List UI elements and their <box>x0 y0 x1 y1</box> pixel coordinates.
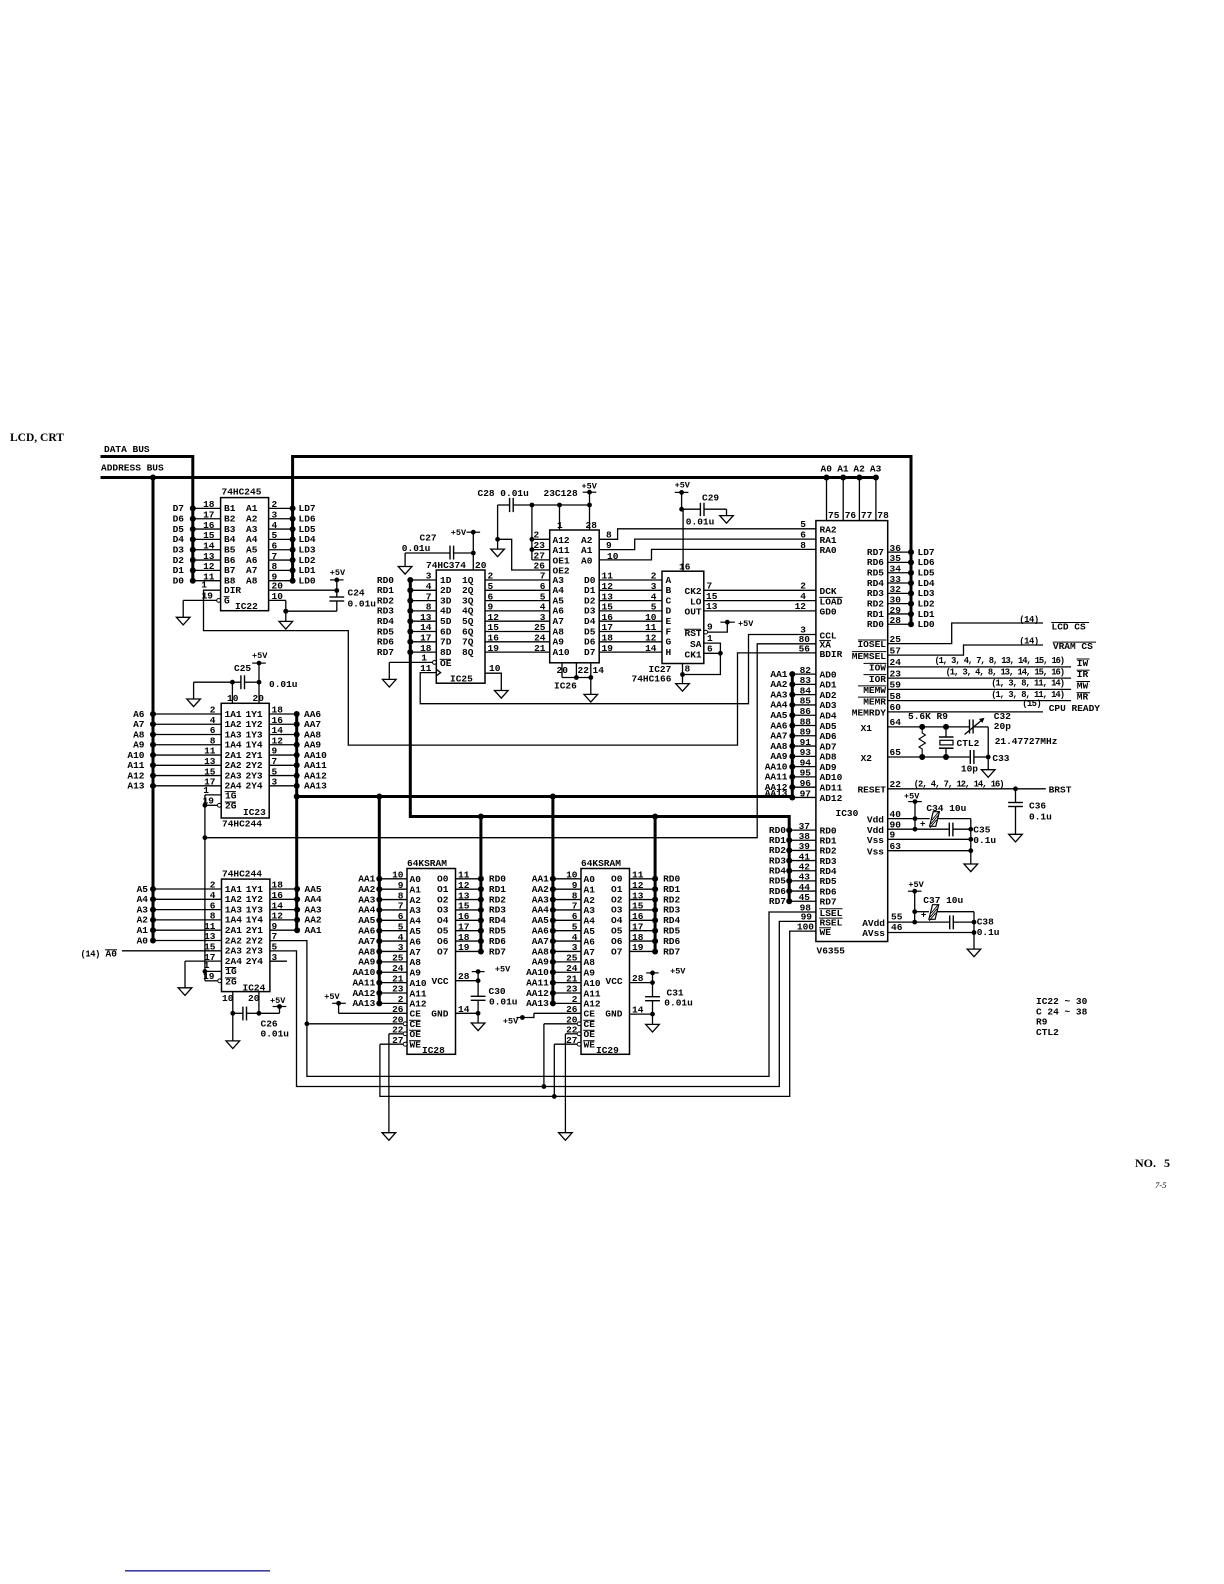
ground IC22 pin10 / C24 <box>279 621 293 629</box>
wire IC28 VCC pin28 <box>456 971 481 983</box>
svg-text:74HC166: 74HC166 <box>632 674 672 685</box>
svg-text:20: 20 <box>475 560 487 571</box>
svg-text:6: 6 <box>398 911 404 922</box>
svg-text:0.01u: 0.01u <box>686 517 715 528</box>
wire IC30 pin 32 RD3 to LD3 <box>867 584 935 599</box>
svg-text:14: 14 <box>593 665 605 676</box>
wire RD4 to IC25 pin 13 <box>377 612 436 627</box>
svg-text:CPU READY: CPU READY <box>1049 703 1101 714</box>
wire IC28 pin 17 O5 to RD5 <box>456 921 507 936</box>
svg-text:RD0: RD0 <box>663 874 680 885</box>
svg-text:+5V: +5V <box>503 1017 519 1027</box>
wire IC30 pin 34 RD5 to LD5 <box>867 564 935 579</box>
svg-text:MEMSEL: MEMSEL <box>852 651 887 662</box>
svg-text:74HC244: 74HC244 <box>222 868 262 879</box>
wire IC23 pin 12 to AA9 <box>269 735 321 750</box>
wire AA2 to IC28 pin 9 <box>358 880 407 895</box>
svg-text:3: 3 <box>272 777 278 788</box>
svg-text:19: 19 <box>488 643 500 654</box>
wire IC29 pin 15 O3 to RD3 <box>630 901 681 916</box>
svg-text:A0: A0 <box>821 464 833 475</box>
IC IC29 64KSRAM <box>581 858 630 1056</box>
wire IC27 OUT pin13 to IC30 GD0 <box>704 601 837 618</box>
svg-text:A0: A0 <box>137 935 149 946</box>
wire IC25 pin 2 to IC26 <box>485 571 550 582</box>
svg-text:11: 11 <box>632 870 644 881</box>
svg-text:AD12: AD12 <box>820 793 843 804</box>
svg-text:BDIR: BDIR <box>820 649 843 660</box>
wire IC29 pin 12 O1 to RD1 <box>630 880 681 895</box>
wire A11 to IC23 pin 13 <box>127 756 221 771</box>
wire RD data bus (thick) <box>410 580 789 952</box>
svg-text:IC25: IC25 <box>450 673 473 684</box>
svg-text:IC30: IC30 <box>836 808 859 819</box>
wire AA5 to IC29 pin 6 <box>532 911 581 926</box>
wire data bus right segment (LD bus) <box>293 457 911 625</box>
svg-text:CTL2: CTL2 <box>957 738 980 749</box>
wire G-enable vertical IC23 to IC24 <box>203 795 208 981</box>
wire A10 to IC23 pin 11 <box>127 746 221 761</box>
svg-text:RD6: RD6 <box>489 936 506 947</box>
wire AA address bus (thick) <box>294 674 793 1003</box>
wire crystal to ground <box>986 727 991 770</box>
ground IC27 pin8 <box>676 684 690 692</box>
wire IC28 pin 12 O1 to RD1 <box>456 880 507 895</box>
svg-text:R9: R9 <box>1036 1017 1048 1028</box>
svg-text:4: 4 <box>398 932 404 943</box>
wire AA9 to IC28 pin 25 <box>358 953 407 968</box>
svg-text:55: 55 <box>891 912 903 923</box>
wire IC29 pin 17 O5 to RD5 <box>630 921 681 936</box>
wire D6 to IC22 pin 17 <box>173 509 221 524</box>
wire IC22 pin 20 VCC <box>269 581 337 592</box>
wire IC24 1G/2G enable <box>203 960 221 982</box>
svg-text:21.47727MHz: 21.47727MHz <box>995 736 1058 747</box>
svg-text:28: 28 <box>458 971 470 982</box>
svg-text:Vdd: Vdd <box>867 814 884 825</box>
svg-text:AA3: AA3 <box>532 894 549 905</box>
wire IC27 CK2 pin7 to IC30 DCK <box>704 581 837 598</box>
svg-text:19: 19 <box>632 942 644 953</box>
svg-text:LCD, CRT: LCD, CRT <box>10 432 64 444</box>
wire IC28 pin 13 O2 to RD2 <box>456 890 507 905</box>
svg-text:1: 1 <box>707 633 713 644</box>
svg-text:18: 18 <box>632 932 644 943</box>
svg-text:AA1: AA1 <box>305 925 322 936</box>
svg-text:AA9: AA9 <box>532 957 549 968</box>
svg-text:6: 6 <box>572 911 578 922</box>
svg-text:RD3: RD3 <box>663 905 680 916</box>
wire AA7 to IC28 pin 4 <box>358 932 407 947</box>
ground crystal <box>981 770 995 778</box>
svg-text:RA0: RA0 <box>820 545 837 556</box>
svg-text:21: 21 <box>392 973 404 984</box>
svg-text:IC22 ~ 30: IC22 ~ 30 <box>1036 996 1088 1007</box>
svg-text:CE: CE <box>410 1009 422 1020</box>
svg-text:15: 15 <box>458 901 470 912</box>
svg-text:A2: A2 <box>410 895 422 906</box>
wire IC29 pin 18 O6 to RD6 <box>630 932 681 947</box>
svg-text:O0: O0 <box>437 874 449 885</box>
svg-text:AA2: AA2 <box>532 884 549 895</box>
svg-text:X1: X1 <box>861 723 873 734</box>
svg-text:AA11: AA11 <box>526 977 549 988</box>
svg-text:8Q: 8Q <box>462 647 474 658</box>
svg-text:28: 28 <box>586 520 598 531</box>
svg-text:DIR: DIR <box>224 585 241 596</box>
svg-text:C24: C24 <box>348 588 365 599</box>
svg-text:23: 23 <box>392 984 404 995</box>
wire address bus <box>101 463 877 481</box>
footer underline <box>125 1570 270 1572</box>
svg-text:74HC245: 74HC245 <box>222 487 262 498</box>
wire DATA BUS label <box>104 444 150 455</box>
wire AVdd row / C38 <box>888 915 977 929</box>
svg-text:RD1: RD1 <box>663 884 680 895</box>
wire IC23 pin 5 to AA12 <box>269 766 327 781</box>
svg-text:Vss: Vss <box>867 835 884 846</box>
wire IC22 pin 6 to LD3 <box>269 540 316 555</box>
svg-text:8D: 8D <box>440 647 452 658</box>
svg-text:+5V: +5V <box>675 480 691 490</box>
wire IC25 pin 16 to IC26 <box>485 633 550 644</box>
svg-text:21: 21 <box>534 643 546 654</box>
svg-text:25: 25 <box>392 953 404 964</box>
wire MEMRDY to CPU READY <box>852 699 1101 718</box>
wire AA12 to IC29 pin 23 <box>526 984 581 999</box>
wire IC22 pin 1 DIR / pin 19 G <box>183 579 220 617</box>
wire A4 to IC24 pin 4 <box>137 890 222 905</box>
wire Vss to ground <box>888 819 973 864</box>
wire RD3 to IC30 pin 41 <box>769 851 837 867</box>
svg-text:AA6: AA6 <box>358 926 375 937</box>
svg-text:D7: D7 <box>584 647 596 658</box>
svg-text:A8: A8 <box>246 576 258 587</box>
wire IC26 A2 to IC30 RA2 <box>599 519 816 540</box>
wire IC26 pin 12 D1 to IC27 <box>599 581 662 592</box>
svg-text:IW: IW <box>1077 658 1089 669</box>
svg-text:0.01u: 0.01u <box>261 1029 290 1040</box>
svg-text:RD2: RD2 <box>489 894 506 905</box>
svg-text:CTL2: CTL2 <box>1036 1027 1059 1038</box>
wire A8 to IC23 pin 6 <box>133 725 221 740</box>
svg-text:A11: A11 <box>410 988 427 999</box>
capacitor C25 0.01u <box>194 663 298 704</box>
svg-text:MEMR: MEMR <box>863 696 886 707</box>
wire IOW to IW <box>864 656 1090 673</box>
wire AA11 to IC29 pin 21 <box>526 973 581 988</box>
svg-text:+5V: +5V <box>270 996 286 1006</box>
wire IC23 pin 7 to AA11 <box>269 756 327 771</box>
svg-text:8: 8 <box>572 890 578 901</box>
svg-text:+5V: +5V <box>908 880 924 890</box>
svg-text:BRST: BRST <box>1049 785 1072 796</box>
IC IC24 74HC244 <box>222 868 270 993</box>
svg-text:A0: A0 <box>410 874 422 885</box>
svg-text:1: 1 <box>201 579 207 590</box>
wire AA9 to IC30 pin 93 <box>770 747 837 763</box>
wire AA5 to IC28 pin 6 <box>358 911 407 926</box>
wire D3 to IC22 pin 14 <box>173 540 221 555</box>
power +5V for AVdd <box>908 880 925 924</box>
wire IC23 pin 3 to AA13 <box>269 777 327 792</box>
wire IC26 pin 13 D2 to IC27 <box>599 591 662 602</box>
svg-text:RD6: RD6 <box>663 936 680 947</box>
wire BDIR net (IC22 DIR to IC30 BDIR) <box>204 590 816 745</box>
svg-text:MW: MW <box>1077 681 1089 692</box>
wire A0-A3 to IC30 pins 75-78 <box>821 464 890 522</box>
svg-text:10: 10 <box>392 870 404 881</box>
wire AA6 to IC30 pin 88 <box>770 716 837 732</box>
title LCD, CRT <box>10 432 64 444</box>
wire IC28 pin 16 O4 to RD4 <box>456 911 507 926</box>
svg-text:C30: C30 <box>489 986 506 997</box>
svg-text:O7: O7 <box>437 946 449 957</box>
wire AA8 to IC28 pin 3 <box>358 942 407 957</box>
wire A3 to IC24 pin 6 <box>137 900 222 915</box>
wire A0-bar (14) to IC24 pin 15 <box>80 942 221 960</box>
wire AA12 to IC30 pin 96 <box>765 778 843 794</box>
svg-text:IC28: IC28 <box>422 1045 445 1056</box>
svg-text:AA12: AA12 <box>526 988 549 999</box>
wire address bus vertical <box>152 478 155 941</box>
svg-text:AA7: AA7 <box>358 936 375 947</box>
ground IC29 OE <box>559 1133 573 1141</box>
wire LSEL net (IC24 2Y2 / IC28 CE / IC30 LSEL) <box>270 912 816 1076</box>
wire IC28 WE pin27 (WE net) <box>380 1035 407 1046</box>
svg-text:+: + <box>920 820 925 830</box>
svg-text:O1: O1 <box>437 884 449 895</box>
IC30 left labels CCL/XA/BDIR <box>799 625 843 660</box>
ground IC29 GND/C31 <box>646 1024 660 1032</box>
wire RD3 to IC25 pin 8 <box>377 602 436 617</box>
svg-text:A0: A0 <box>581 555 593 566</box>
wire IC24 pin 12 to AA2 <box>270 911 322 926</box>
svg-text:(1, 3, 4, 7, 8, 13, 14, 15, 16: (1, 3, 4, 7, 8, 13, 14, 15, 16) <box>934 656 1064 666</box>
wire IC23 pin 18 to AA6 <box>269 705 321 720</box>
svg-text:A10: A10 <box>553 647 570 658</box>
wire AA6 to IC29 pin 5 <box>532 921 581 936</box>
svg-text:O3: O3 <box>611 905 623 916</box>
svg-text:RESET: RESET <box>857 785 886 796</box>
wire A9 to IC23 pin 8 <box>133 735 221 750</box>
wire A5 to IC24 pin 2 <box>137 880 222 895</box>
svg-text:2Y4: 2Y4 <box>246 956 263 967</box>
svg-text:10: 10 <box>227 693 239 704</box>
svg-text:IC26: IC26 <box>554 681 577 692</box>
svg-text:26: 26 <box>534 560 546 571</box>
wire IC24 pin 14 to AA3 <box>270 900 322 915</box>
wire A13 to IC23 pin 17 <box>127 777 221 792</box>
ground Vss <box>964 864 978 872</box>
ground C28 <box>491 549 505 557</box>
svg-text:64KSRAM: 64KSRAM <box>407 858 447 869</box>
power +5V for IC22/C24 <box>330 568 346 597</box>
svg-text:A1: A1 <box>584 884 596 895</box>
svg-text:+5V: +5V <box>738 619 754 629</box>
svg-text:D0: D0 <box>173 576 185 587</box>
wire IC28 GND pin14 <box>456 1004 481 1023</box>
svg-text:A3: A3 <box>584 905 596 916</box>
wire RD7 to IC25 pin 18 <box>377 643 436 658</box>
svg-text:C28 0.01u: C28 0.01u <box>478 488 530 499</box>
svg-text:O0: O0 <box>611 874 623 885</box>
wire IC28 pin 11 O0 to RD0 <box>456 870 507 885</box>
svg-text:9: 9 <box>572 880 578 891</box>
svg-text:20: 20 <box>248 993 260 1004</box>
svg-text:AA13: AA13 <box>352 998 375 1009</box>
svg-text:A8: A8 <box>584 957 596 968</box>
svg-text:WE: WE <box>820 927 832 938</box>
svg-text:13: 13 <box>458 890 470 901</box>
svg-text:A2: A2 <box>853 464 865 475</box>
IC26 top-right pin labels A2/A1/A0 <box>581 535 593 567</box>
wire AA10 to IC29 pin 24 <box>526 963 581 978</box>
power +5V for IC27/C29 <box>675 480 691 511</box>
svg-text:IR: IR <box>1077 669 1089 680</box>
svg-text:LD0: LD0 <box>918 619 935 630</box>
wire IC23 pin 9 to AA10 <box>269 746 327 761</box>
svg-text:(14): (14) <box>1019 636 1039 646</box>
page number NO. 5 <box>1135 1156 1170 1170</box>
svg-text:H: H <box>666 647 672 658</box>
wire AA12 to IC28 pin 23 <box>352 984 407 999</box>
svg-text:9: 9 <box>707 622 713 633</box>
svg-text:DATA BUS: DATA BUS <box>104 444 150 455</box>
svg-text:O2: O2 <box>611 894 623 905</box>
svg-text:18: 18 <box>458 932 470 943</box>
IC26 left column labels A3-A10 <box>553 575 570 658</box>
svg-text:AA8: AA8 <box>532 946 549 957</box>
svg-text:AA8: AA8 <box>358 946 375 957</box>
wire AA7 to IC29 pin 4 <box>532 932 581 947</box>
wire IC26 pin 18 D6 to IC27 <box>599 633 662 644</box>
svg-text:0.01u: 0.01u <box>664 998 693 1009</box>
svg-text:C29: C29 <box>702 493 719 504</box>
wire IC26 pin 11 D0 to IC27 <box>599 571 662 582</box>
svg-text:0.1u: 0.1u <box>977 927 1000 938</box>
svg-text:AA13: AA13 <box>526 998 549 1009</box>
svg-text:16: 16 <box>632 911 644 922</box>
capacitor C30 0.01u <box>471 986 518 1013</box>
svg-text:IC23: IC23 <box>243 807 266 818</box>
svg-text:RD2: RD2 <box>663 894 680 905</box>
svg-text:76: 76 <box>845 510 857 521</box>
svg-text:0.1u: 0.1u <box>973 835 996 846</box>
svg-text:26: 26 <box>392 1004 404 1015</box>
wire AA8 to IC30 pin 91 <box>770 737 837 753</box>
svg-text:5: 5 <box>572 921 578 932</box>
wire IC29 OE pin22 to ground <box>565 1025 581 1133</box>
IC IC23 74HC244 <box>221 703 269 829</box>
svg-text:97: 97 <box>800 788 812 799</box>
svg-text:+5V: +5V <box>451 528 467 538</box>
svg-text:10: 10 <box>607 551 619 562</box>
svg-text:AA9: AA9 <box>358 957 375 968</box>
crystal CTL2 21.47727MHz <box>939 727 1058 757</box>
wire IC22 pin 9 to LD0 <box>269 571 316 586</box>
wire AA4 to IC29 pin 7 <box>532 901 581 916</box>
svg-text:24: 24 <box>566 963 578 974</box>
svg-text:AA10: AA10 <box>352 967 375 978</box>
wire MEMR to MR <box>858 690 1090 707</box>
wire IC29 VCC pin28 <box>630 973 655 985</box>
svg-text:VCC: VCC <box>432 976 449 987</box>
svg-text:74HC244: 74HC244 <box>222 818 262 829</box>
wire IC22 pin 5 to LD4 <box>269 530 316 545</box>
svg-text:74HC374: 74HC374 <box>426 560 466 571</box>
wire IC25 pin 12 to IC26 <box>485 612 550 623</box>
wire IC30 pin 35 RD6 to LD6 <box>867 553 935 568</box>
wire D2 to IC22 pin 13 <box>173 551 221 566</box>
svg-text:O1: O1 <box>611 884 623 895</box>
wire IC29 pin 19 O7 to RD7 <box>630 942 681 957</box>
wire MEMSEL to VRAM CS <box>852 636 1096 661</box>
svg-text:A6: A6 <box>584 936 596 947</box>
svg-text:O6: O6 <box>437 936 449 947</box>
wire IC23 pin 16 to AA7 <box>269 715 321 730</box>
power +5V for IC23/C25 <box>252 651 268 682</box>
svg-text:9: 9 <box>398 880 404 891</box>
IC IC22 74HC245 <box>221 487 269 613</box>
ground IC24 2A4 <box>178 988 192 996</box>
wire AA7 to IC30 pin 89 <box>770 727 837 743</box>
wire RD1 to IC30 pin 38 <box>769 831 837 847</box>
svg-text:A4: A4 <box>410 916 422 927</box>
power +5V for IC27 RST <box>720 619 754 629</box>
svg-text:AA6: AA6 <box>532 926 549 937</box>
svg-text:A10: A10 <box>410 978 427 989</box>
wire IC28 CE pin20 (LSEL) <box>307 1015 407 1026</box>
ground C27 <box>398 567 412 575</box>
svg-text:AA1: AA1 <box>358 874 375 885</box>
wire RD4 to IC30 pin 42 <box>769 862 837 878</box>
svg-text:GND: GND <box>431 1009 448 1020</box>
wire D0 to IC22 pin 11 <box>173 571 221 586</box>
svg-text:RD5: RD5 <box>663 926 680 937</box>
capacitor C37 10u (electrolytic) <box>915 895 974 921</box>
svg-text:+5V: +5V <box>582 482 598 492</box>
IC IC27 74HC166 <box>632 571 704 684</box>
wire IC25 pin 15 to IC26 <box>485 622 550 633</box>
svg-text:0.01u: 0.01u <box>489 997 518 1008</box>
svg-text:64KSRAM: 64KSRAM <box>581 858 621 869</box>
wire AA10 to IC30 pin 94 <box>765 757 837 773</box>
svg-text:27: 27 <box>392 1035 404 1046</box>
IC26 top-left pin labels A12/A11/OE1/OE2 <box>553 535 570 577</box>
svg-text:O6: O6 <box>611 936 623 947</box>
svg-text:RD7: RD7 <box>820 897 837 908</box>
wire RD6 to IC30 pin 44 <box>769 882 837 898</box>
wire RD1 to IC25 pin 4 <box>377 581 436 596</box>
svg-text:A2: A2 <box>584 895 596 906</box>
wire IC24 pin 9 to AA1 <box>270 921 322 936</box>
ground IC22 pin19 <box>176 617 190 625</box>
svg-text:20p: 20p <box>994 721 1011 732</box>
svg-text:AA2: AA2 <box>358 884 375 895</box>
svg-text:AVdd: AVdd <box>862 918 885 929</box>
ground IC25 pin10 <box>495 691 509 699</box>
svg-text:7-5: 7-5 <box>1155 1180 1166 1190</box>
capacitor C31 0.01u <box>645 988 693 1015</box>
power +5V for IC24/C26 <box>270 996 286 1013</box>
svg-text:28: 28 <box>890 615 902 626</box>
power +5V for IC29 CE <box>503 1015 529 1027</box>
svg-text:A3: A3 <box>410 905 422 916</box>
svg-text:MR: MR <box>1077 692 1089 703</box>
svg-text:+5V: +5V <box>670 966 686 976</box>
svg-text:+5V: +5V <box>495 964 511 974</box>
